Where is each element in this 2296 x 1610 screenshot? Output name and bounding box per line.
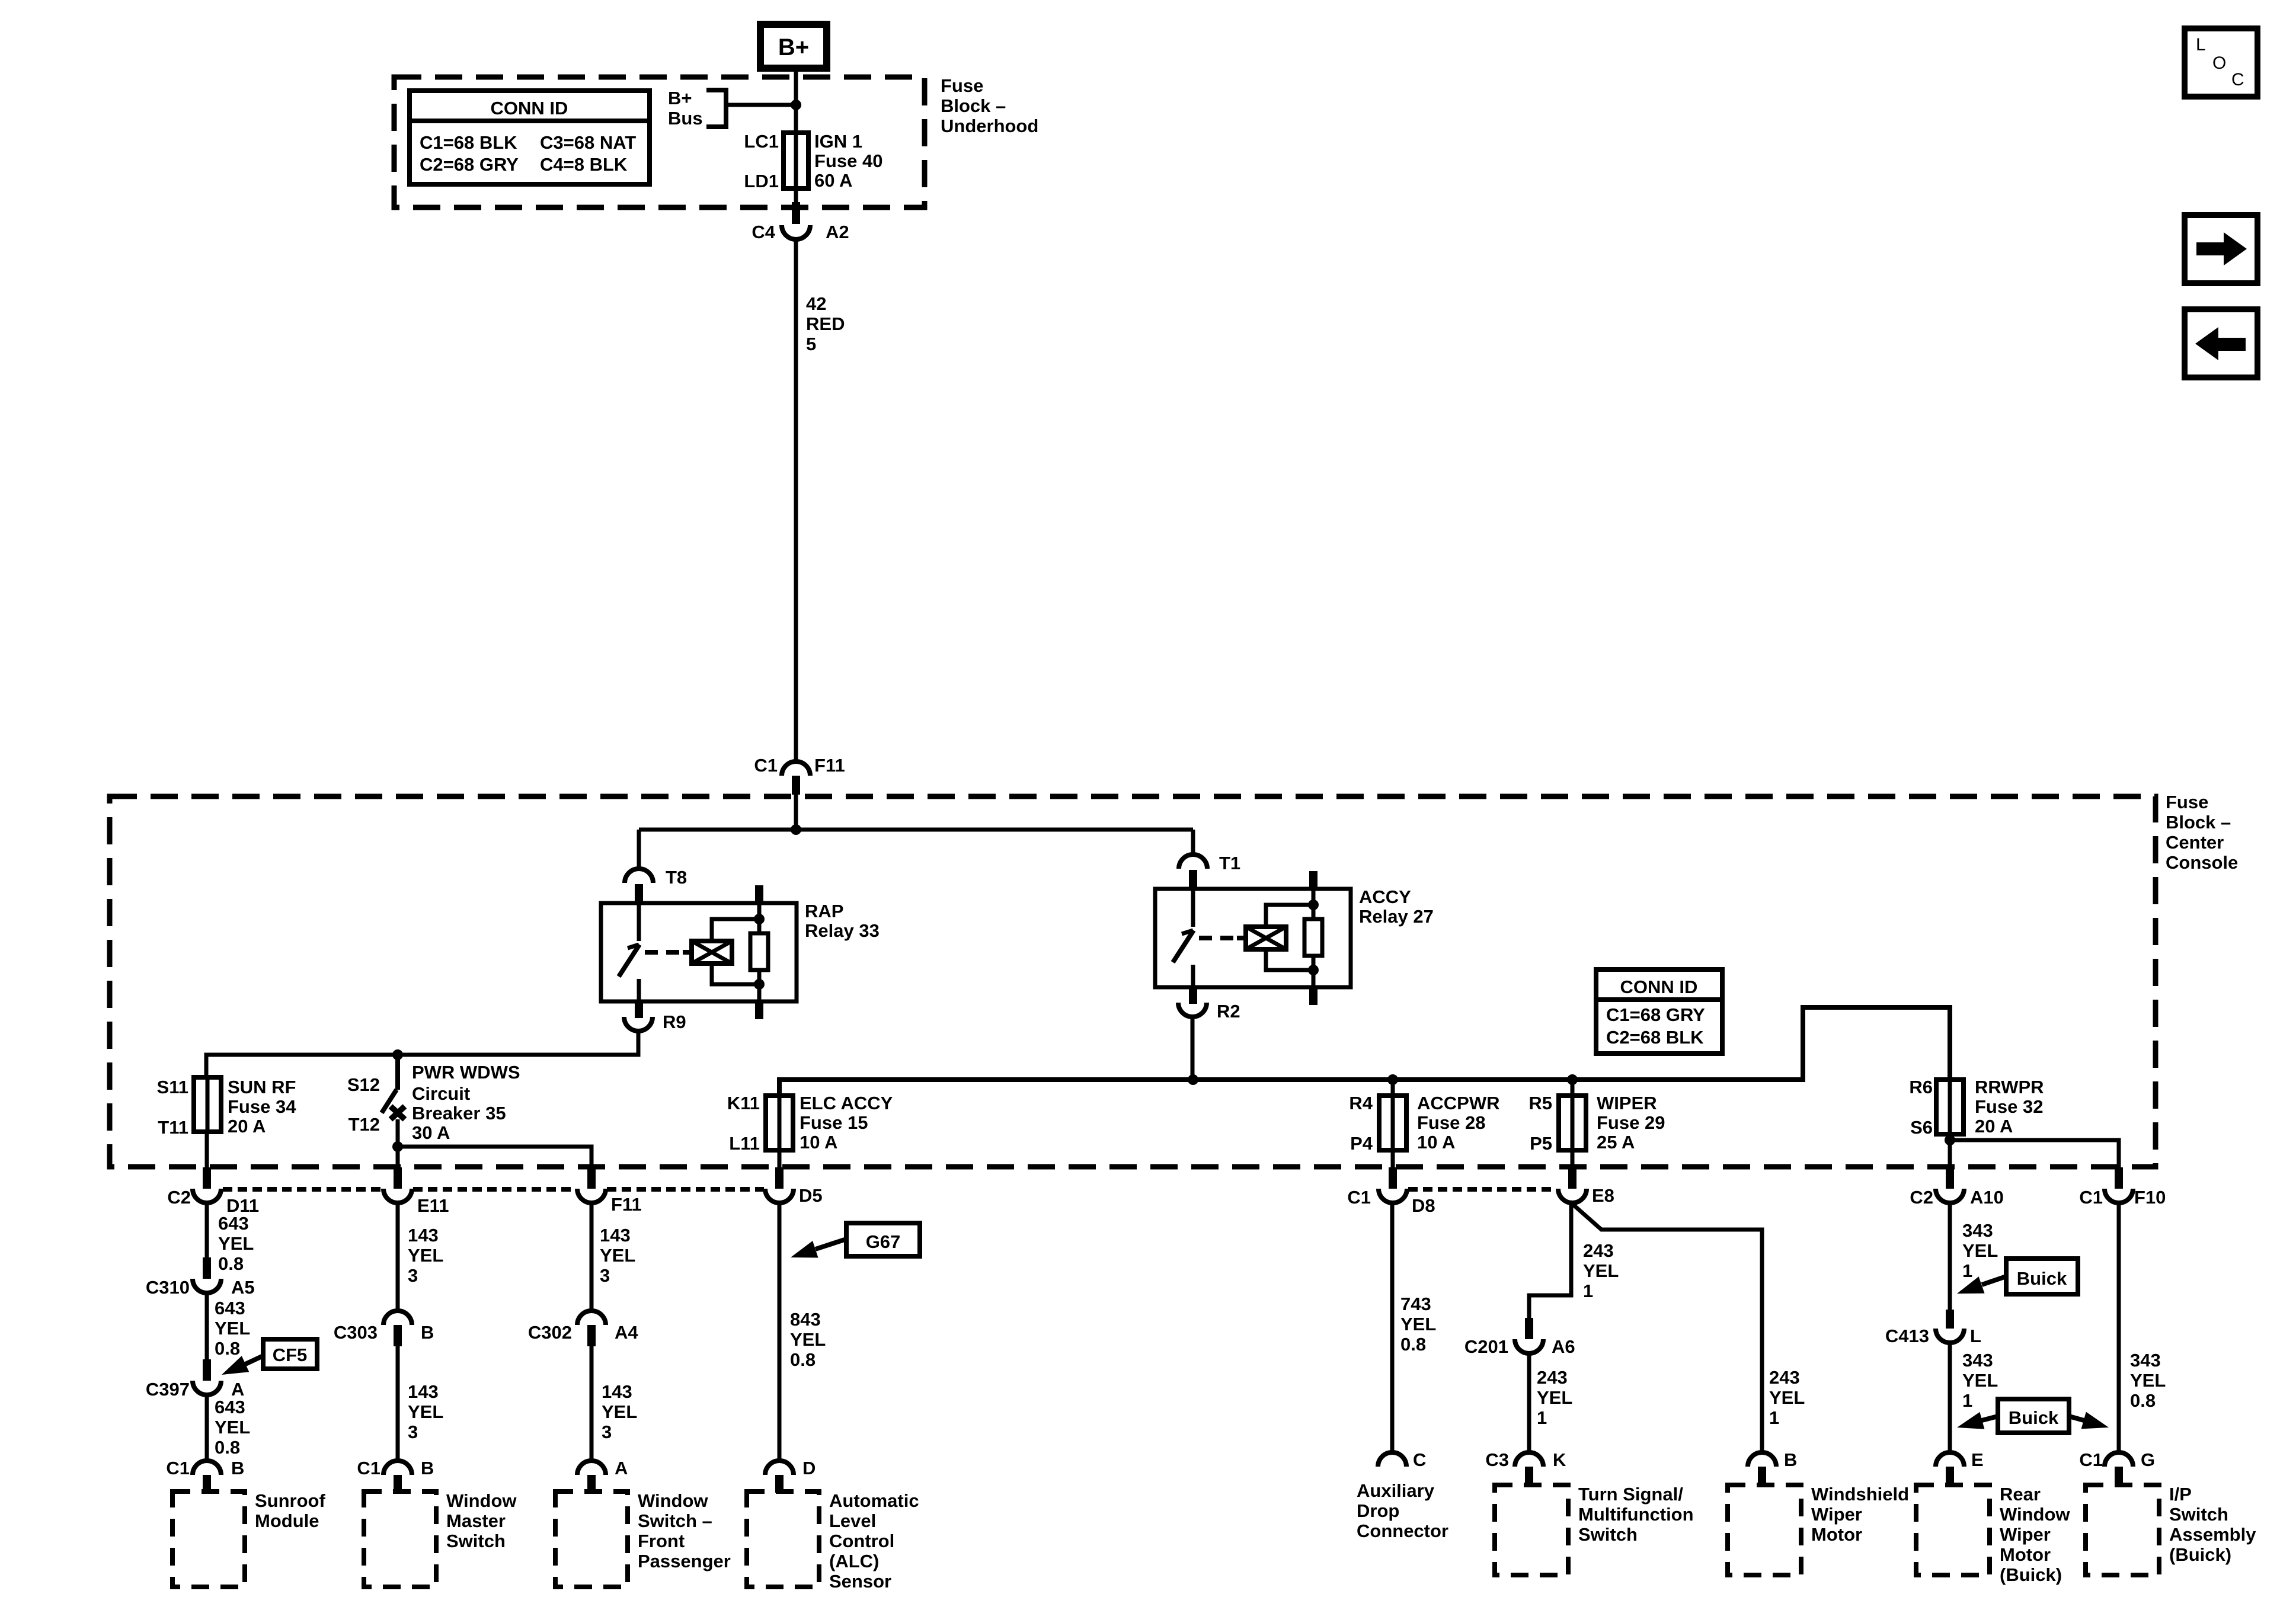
connector R9 — [624, 1012, 686, 1032]
connector C303 B — [334, 1311, 434, 1343]
svg-text:343: 343 — [1962, 1220, 1993, 1241]
connector E8 — [1558, 1185, 1614, 1206]
label wire 243 YEL 1 a — [1583, 1240, 1619, 1301]
label window switch front passenger — [638, 1490, 731, 1571]
svg-text:C413: C413 — [1885, 1326, 1929, 1346]
svg-text:C1: C1 — [357, 1458, 380, 1478]
svg-text:143: 143 — [600, 1225, 631, 1246]
svg-text:C310: C310 — [146, 1277, 190, 1298]
wire F10 to IP switch — [2117, 1203, 2121, 1453]
svg-text:(Buick): (Buick) — [2000, 1564, 2062, 1585]
connector C397 A — [146, 1379, 245, 1400]
svg-text:O: O — [2212, 53, 2226, 73]
label wire 643 YEL 0.8 b — [215, 1298, 250, 1359]
svg-text:A2: A2 — [826, 222, 849, 242]
svg-text:CONN ID: CONN ID — [491, 98, 568, 119]
svg-text:C201: C201 — [1464, 1336, 1508, 1357]
svg-text:60 A: 60 A — [814, 170, 852, 191]
svg-text:CONN ID: CONN ID — [1620, 977, 1698, 997]
wire C302 to window switch — [590, 1346, 594, 1461]
svg-text:143: 143 — [408, 1381, 439, 1402]
label wire 343 YEL 1 b — [1962, 1350, 1998, 1411]
svg-text:1: 1 — [1537, 1407, 1547, 1428]
svg-text:YEL: YEL — [790, 1329, 826, 1350]
callout Buick lower — [1957, 1399, 2109, 1433]
svg-text:S11: S11 — [157, 1077, 188, 1097]
svg-text:Bus: Bus — [668, 108, 703, 129]
junction WIPER bus — [1567, 1074, 1578, 1085]
svg-text:B+: B+ — [668, 88, 692, 108]
wire breaker to E11 — [396, 1147, 400, 1169]
pin C1 D8 — [1389, 1167, 1397, 1189]
connector E11 — [383, 1189, 449, 1216]
label wire 843 YEL 0.8 — [790, 1309, 826, 1370]
connector E rear wiper — [1936, 1449, 1984, 1470]
svg-text:Window: Window — [2000, 1504, 2070, 1525]
svg-text:T1: T1 — [1219, 853, 1240, 873]
svg-text:Module: Module — [255, 1510, 319, 1531]
callout CF5 — [222, 1339, 317, 1375]
svg-text:Multifunction: Multifunction — [1578, 1504, 1694, 1525]
CONN ID table underhood — [410, 91, 650, 184]
svg-text:K: K — [1553, 1449, 1566, 1470]
junction ACCPWR bus — [1387, 1074, 1398, 1085]
svg-text:ACCY: ACCY — [1359, 886, 1411, 907]
connector R2 — [1178, 1001, 1240, 1022]
svg-text:25 A: 25 A — [1597, 1132, 1635, 1153]
pin master B — [394, 1475, 402, 1493]
label wire 143 YEL 3 c — [600, 1225, 635, 1286]
connector C2 D11 — [167, 1187, 259, 1216]
svg-text:YEL: YEL — [215, 1318, 250, 1339]
svg-text:B+: B+ — [778, 34, 809, 60]
fuse SUN RF Fuse 34 — [157, 1077, 297, 1138]
svg-text:LC1: LC1 — [744, 131, 779, 152]
svg-text:S12: S12 — [347, 1074, 380, 1095]
svg-text:Relay 33: Relay 33 — [805, 920, 880, 941]
svg-text:A10: A10 — [1970, 1187, 2004, 1208]
svg-text:F11: F11 — [611, 1194, 642, 1215]
label auxiliary drop connector — [1357, 1480, 1448, 1541]
svg-text:Front: Front — [638, 1531, 685, 1551]
svg-text:Switch: Switch — [2169, 1504, 2228, 1525]
svg-text:343: 343 — [2130, 1350, 2161, 1371]
label wire 243 YEL 1 c — [1769, 1367, 1805, 1428]
svg-text:L: L — [1970, 1326, 1981, 1346]
svg-text:YEL: YEL — [218, 1233, 254, 1254]
component window master switch — [364, 1491, 436, 1587]
wire A10 to C413 — [1948, 1203, 1952, 1311]
svg-text:C2=68 BLK: C2=68 BLK — [1606, 1027, 1704, 1048]
pin R9 — [635, 1001, 643, 1018]
LOC legend box — [2185, 28, 2257, 97]
svg-text:A4: A4 — [615, 1322, 638, 1343]
svg-text:YEL: YEL — [408, 1245, 443, 1266]
svg-text:10 A: 10 A — [800, 1132, 837, 1153]
pin C201 — [1525, 1318, 1533, 1339]
svg-text:Rear: Rear — [2000, 1484, 2041, 1505]
pin F11 — [587, 1167, 596, 1189]
wire 42 RED 5 — [794, 239, 798, 762]
svg-text:843: 843 — [790, 1309, 821, 1330]
wire C413 to rear wiper — [1948, 1343, 1952, 1453]
label wire 143 YEL 3 d — [602, 1381, 637, 1442]
svg-text:20 A: 20 A — [228, 1116, 266, 1137]
svg-text:C2=68 GRY: C2=68 GRY — [420, 154, 519, 175]
svg-text:B: B — [1784, 1449, 1797, 1470]
svg-text:42: 42 — [806, 293, 826, 314]
svg-text:CF5: CF5 — [273, 1345, 308, 1365]
svg-text:C2: C2 — [1910, 1187, 1933, 1208]
connector C1 F11 — [754, 755, 845, 795]
junction bus top — [791, 824, 801, 835]
B+ bus bracket — [706, 90, 726, 127]
svg-text:343: 343 — [1962, 1350, 1993, 1371]
svg-text:Assembly: Assembly — [2169, 1524, 2256, 1545]
svg-text:P5: P5 — [1530, 1133, 1552, 1154]
svg-text:R5: R5 — [1528, 1093, 1552, 1113]
wire A5 to C397 — [205, 1293, 209, 1361]
pin C2 D11 — [203, 1167, 211, 1189]
svg-text:C4=8 BLK: C4=8 BLK — [540, 154, 628, 175]
svg-text:Automatic: Automatic — [829, 1490, 919, 1511]
pin D5 — [775, 1167, 784, 1189]
svg-text:LD1: LD1 — [744, 171, 779, 191]
wire bus to T8 — [637, 830, 641, 869]
pin rear wiper E — [1946, 1467, 1954, 1484]
svg-text:C3: C3 — [1485, 1449, 1509, 1470]
connector C3 K — [1485, 1449, 1566, 1470]
wire B+ to IGN1 fuse — [794, 68, 798, 202]
svg-text:WIPER: WIPER — [1597, 1093, 1657, 1113]
svg-text:D8: D8 — [1412, 1195, 1435, 1216]
svg-text:Circuit: Circuit — [412, 1083, 470, 1104]
wire E8 branch to wiper motor — [1571, 1203, 1762, 1453]
svg-text:L: L — [2196, 35, 2206, 55]
CONN ID table center console — [1596, 969, 1722, 1054]
svg-text:Wiper: Wiper — [1811, 1504, 1862, 1525]
connector C1 B master — [357, 1458, 434, 1478]
svg-text:20 A: 20 A — [1975, 1116, 2013, 1137]
svg-text:D5: D5 — [799, 1185, 823, 1206]
svg-text:10 A: 10 A — [1417, 1132, 1455, 1153]
svg-text:643: 643 — [215, 1298, 245, 1318]
label wire 143 YEL 3 b — [408, 1381, 443, 1442]
component turn signal multifunction switch — [1495, 1485, 1568, 1575]
svg-text:R4: R4 — [1349, 1093, 1373, 1113]
fuse block underhood dashed box — [394, 77, 925, 207]
svg-text:1: 1 — [1962, 1260, 1972, 1281]
wire R2 to bus — [1191, 1016, 1195, 1080]
dotted line F11-D5 — [607, 1187, 764, 1192]
svg-text:Fuse: Fuse — [2166, 792, 2208, 812]
pin E8 — [1568, 1167, 1576, 1189]
connector C302 A4 — [528, 1311, 638, 1343]
svg-text:YEL: YEL — [408, 1401, 443, 1422]
svg-text:643: 643 — [215, 1397, 245, 1417]
svg-text:Buick: Buick — [2009, 1407, 2059, 1428]
svg-text:1: 1 — [1769, 1407, 1779, 1428]
label rear window wiper motor — [2000, 1484, 2070, 1585]
svg-text:Fuse 29: Fuse 29 — [1597, 1112, 1665, 1133]
fuse ACCPWR Fuse 28 — [1349, 1093, 1499, 1154]
connector C310 A5 — [146, 1277, 255, 1298]
svg-text:C397: C397 — [146, 1379, 190, 1400]
pin ALC D — [775, 1475, 784, 1493]
svg-text:YEL: YEL — [1769, 1387, 1805, 1408]
fuse IGN 1 Fuse 40 — [744, 131, 882, 191]
label 42 RED 5 — [806, 293, 845, 354]
label windshield wiper motor — [1811, 1484, 1909, 1545]
svg-text:Buick: Buick — [2017, 1268, 2067, 1289]
pin window switch A — [587, 1475, 596, 1493]
svg-text:C1: C1 — [1347, 1187, 1371, 1208]
svg-text:0.8: 0.8 — [2130, 1390, 2156, 1411]
svg-text:3: 3 — [408, 1422, 418, 1442]
connector C1 B sunroof — [166, 1458, 244, 1478]
svg-text:30 A: 30 A — [412, 1122, 450, 1143]
pin wiper motor B — [1758, 1467, 1766, 1484]
svg-text:R9: R9 — [663, 1012, 686, 1032]
svg-text:Fuse: Fuse — [941, 75, 983, 96]
svg-text:YEL: YEL — [2130, 1370, 2166, 1391]
wire F11 to bus — [794, 795, 798, 830]
wire D11 to C310 — [205, 1203, 209, 1259]
svg-text:Switch: Switch — [446, 1531, 506, 1551]
arrow next box — [2185, 215, 2257, 283]
wire E11 to C303 — [396, 1203, 400, 1311]
pin C310 — [203, 1257, 211, 1279]
svg-text:E8: E8 — [1592, 1185, 1614, 1206]
component rear window wiper motor — [1916, 1485, 1990, 1575]
junction S6 — [1945, 1135, 1955, 1145]
connector C413 L — [1885, 1326, 1981, 1346]
wire ELC to D5 — [778, 1150, 782, 1169]
wire bus to ACCPWR — [1391, 1080, 1395, 1096]
wire WIPER to E8 — [1571, 1150, 1575, 1169]
svg-text:A6: A6 — [1552, 1336, 1575, 1357]
pin C413 — [1946, 1310, 1954, 1329]
circuit breaker PWR WDWS 35 — [347, 1055, 520, 1147]
pin E11 — [394, 1167, 402, 1189]
junction R2 bus — [1188, 1074, 1198, 1085]
wire S6 to F10 — [1950, 1140, 2119, 1169]
svg-text:Relay 27: Relay 27 — [1359, 906, 1434, 927]
wire B+ bus tap — [726, 103, 796, 107]
svg-text:K11: K11 — [727, 1093, 760, 1113]
svg-text:F10: F10 — [2134, 1187, 2166, 1208]
svg-text:A5: A5 — [231, 1277, 255, 1298]
connector B wiper motor — [1748, 1449, 1797, 1470]
svg-text:Turn Signal/: Turn Signal/ — [1578, 1484, 1683, 1505]
svg-text:RRWPR: RRWPR — [1975, 1077, 2044, 1097]
svg-text:YEL: YEL — [1537, 1387, 1572, 1408]
wire A6 to C3 K — [1527, 1353, 1531, 1453]
label ALC sensor — [829, 1490, 919, 1592]
label IP switch assembly — [2169, 1484, 2256, 1565]
relay RAP Relay 33 — [601, 885, 880, 1019]
label fuse block underhood — [941, 75, 1038, 136]
svg-text:C4: C4 — [752, 222, 775, 242]
svg-text:Connector: Connector — [1357, 1521, 1448, 1541]
svg-text:C1=68 BLK: C1=68 BLK — [420, 132, 517, 153]
fuse WIPER Fuse 29 — [1528, 1093, 1665, 1154]
svg-text:C1: C1 — [2079, 1187, 2103, 1208]
svg-text:YEL: YEL — [1962, 1240, 1998, 1261]
svg-text:G67: G67 — [866, 1231, 901, 1252]
svg-text:S6: S6 — [1910, 1117, 1933, 1138]
label wire 243 YEL 1 b — [1537, 1367, 1572, 1428]
connector F11 — [577, 1189, 642, 1215]
svg-text:B: B — [421, 1458, 434, 1478]
label sunroof module — [255, 1490, 325, 1531]
svg-text:Windshield: Windshield — [1811, 1484, 1909, 1505]
svg-text:143: 143 — [602, 1381, 632, 1402]
svg-text:(Buick): (Buick) — [2169, 1544, 2231, 1565]
pin C1 F10 — [2115, 1167, 2123, 1189]
label wire 643 YEL 0.8 a — [218, 1213, 254, 1274]
svg-text:743: 743 — [1400, 1294, 1431, 1314]
wire D8 to aux drop — [1390, 1203, 1395, 1453]
svg-text:YEL: YEL — [215, 1417, 250, 1438]
svg-text:3: 3 — [600, 1265, 610, 1286]
svg-text:643: 643 — [218, 1213, 249, 1234]
label fuse block center console — [2166, 792, 2238, 873]
wire C397 to sunroof — [205, 1395, 209, 1461]
svg-text:YEL: YEL — [1962, 1370, 1998, 1391]
svg-text:YEL: YEL — [602, 1401, 637, 1422]
label B+ Bus — [668, 88, 703, 129]
arrow previous box — [2185, 309, 2257, 377]
svg-text:Level: Level — [829, 1510, 876, 1531]
connector C1 F10 — [2079, 1187, 2166, 1208]
svg-text:Fuse 28: Fuse 28 — [1417, 1112, 1485, 1133]
component IP switch assembly — [2086, 1485, 2159, 1575]
label window master switch — [446, 1490, 517, 1551]
svg-text:C303: C303 — [334, 1322, 378, 1343]
internal bus top — [639, 828, 1193, 832]
svg-text:0.8: 0.8 — [790, 1349, 816, 1370]
svg-text:C1: C1 — [166, 1458, 190, 1478]
svg-text:PWR WDWS: PWR WDWS — [412, 1062, 520, 1083]
svg-text:ACCPWR: ACCPWR — [1417, 1093, 1500, 1113]
svg-text:Control: Control — [829, 1531, 894, 1551]
relay ACCY Relay 27 — [1155, 871, 1434, 1005]
svg-text:E11: E11 — [417, 1195, 449, 1216]
svg-text:Console: Console — [2166, 852, 2238, 873]
connector C1 G — [2079, 1449, 2155, 1470]
component ALC sensor — [747, 1491, 819, 1587]
svg-text:5: 5 — [806, 334, 816, 354]
svg-text:243: 243 — [1769, 1367, 1800, 1388]
svg-text:L11: L11 — [729, 1133, 760, 1154]
label wire 343 YEL 0.8 — [2130, 1350, 2166, 1411]
svg-text:Fuse 34: Fuse 34 — [228, 1096, 296, 1117]
svg-text:YEL: YEL — [1583, 1260, 1619, 1281]
svg-text:C3=68 NAT: C3=68 NAT — [540, 132, 636, 153]
svg-text:C2: C2 — [167, 1187, 191, 1208]
svg-text:Fuse 15: Fuse 15 — [800, 1112, 868, 1133]
component window switch front passenger — [555, 1491, 628, 1587]
svg-text:Fuse 40: Fuse 40 — [814, 151, 882, 171]
svg-text:Window: Window — [638, 1490, 708, 1511]
svg-text:Center: Center — [2166, 832, 2224, 853]
label turn signal multifunction switch — [1578, 1484, 1694, 1545]
fuse RRWPR Fuse 32 — [1909, 1077, 2044, 1138]
svg-text:B: B — [421, 1322, 434, 1343]
junction breaker tap — [392, 1049, 403, 1060]
svg-text:Fuse 32: Fuse 32 — [1975, 1096, 2043, 1117]
pin C397 — [203, 1359, 211, 1381]
connector C2 A10 — [1910, 1187, 2004, 1208]
svg-text:Sunroof: Sunroof — [255, 1490, 325, 1511]
pin C2 A10 — [1946, 1167, 1954, 1189]
svg-text:Master: Master — [446, 1510, 506, 1531]
wire E8 to C201 — [1529, 1203, 1571, 1319]
pin turn signal K — [1525, 1467, 1533, 1484]
pin IP switch G — [2115, 1467, 2123, 1484]
svg-text:Block –: Block – — [941, 95, 1006, 116]
svg-text:Passenger: Passenger — [638, 1551, 731, 1571]
svg-text:D: D — [802, 1458, 816, 1478]
svg-text:P4: P4 — [1350, 1133, 1373, 1154]
svg-text:0.8: 0.8 — [215, 1338, 240, 1359]
svg-text:3: 3 — [602, 1422, 612, 1442]
component windshield wiper motor — [1728, 1485, 1801, 1575]
svg-text:243: 243 — [1537, 1367, 1568, 1388]
svg-text:G: G — [2141, 1449, 2155, 1470]
callout G67 — [791, 1223, 920, 1258]
svg-text:Window: Window — [446, 1490, 517, 1511]
svg-text:Block –: Block – — [2166, 812, 2231, 833]
wire SUN RF to C2 — [205, 1132, 209, 1169]
svg-text:Drop: Drop — [1357, 1500, 1399, 1521]
connector T8 — [625, 867, 687, 903]
main bus wire — [779, 1007, 1950, 1096]
svg-text:C1: C1 — [754, 755, 778, 776]
label wire 343 YEL 1 a — [1962, 1220, 1998, 1281]
wire R9 to SUN RF fuse — [206, 1030, 638, 1077]
svg-text:R2: R2 — [1217, 1001, 1240, 1022]
svg-text:IGN 1: IGN 1 — [814, 131, 862, 152]
wire F11 to C302 — [590, 1203, 594, 1311]
dotted line E11-F11 — [413, 1187, 576, 1192]
svg-text:1: 1 — [1962, 1390, 1972, 1411]
svg-text:F11: F11 — [814, 755, 845, 776]
label wire 643 YEL 0.8 c — [215, 1397, 250, 1458]
svg-text:B: B — [231, 1458, 244, 1478]
pin C4 — [792, 202, 800, 224]
wire bus to WIPER — [1571, 1080, 1575, 1096]
connector C aux drop — [1378, 1449, 1426, 1470]
svg-text:T8: T8 — [666, 867, 687, 888]
dotted line C2-E11 — [223, 1187, 382, 1192]
svg-text:Underhood: Underhood — [941, 116, 1038, 136]
svg-text:C: C — [1413, 1449, 1426, 1470]
wire ACCPWR to D8 — [1391, 1150, 1395, 1169]
svg-text:R6: R6 — [1909, 1077, 1933, 1097]
svg-text:RED: RED — [806, 313, 845, 334]
svg-text:ELC ACCY: ELC ACCY — [800, 1093, 893, 1113]
label wire 743 YEL 0.8 — [1400, 1294, 1436, 1355]
svg-text:Switch: Switch — [1578, 1524, 1638, 1545]
svg-text:(ALC): (ALC) — [829, 1551, 879, 1571]
svg-text:T12: T12 — [348, 1114, 380, 1135]
svg-text:YEL: YEL — [600, 1245, 635, 1266]
component sunroof module — [172, 1491, 245, 1587]
svg-text:SUN RF: SUN RF — [228, 1077, 296, 1097]
svg-text:Motor: Motor — [2000, 1544, 2051, 1565]
